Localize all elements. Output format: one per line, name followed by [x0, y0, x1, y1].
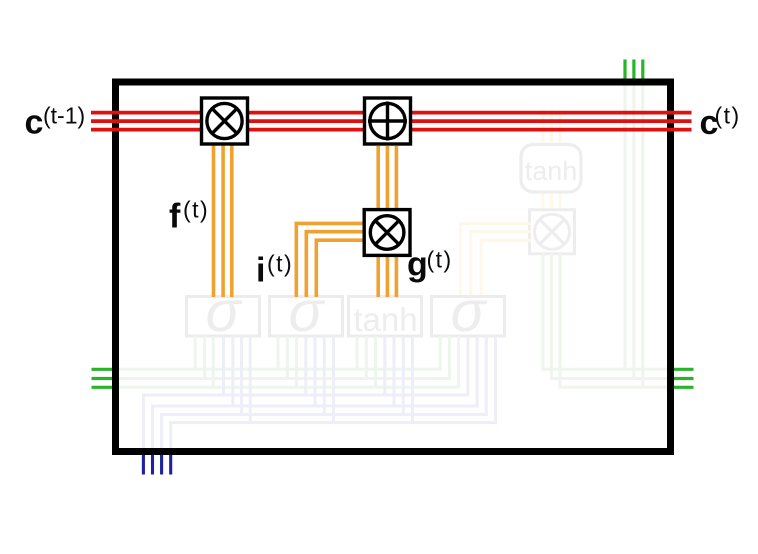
wire h-prev taps ghost (green verticals into gate boxes): [195, 336, 375, 387]
wire g-gate lower (orange verticals, tanh to multiply2): [378, 254, 396, 297]
wire h-out top branch ghost (green verticals to top border): [625, 83, 643, 387]
sigma box 1 (forget gate, ghost): [187, 279, 260, 344]
label i(t): [256, 251, 293, 290]
wire c bus (red horizontals): [91, 113, 692, 130]
svg-text:c: c: [25, 104, 44, 142]
svg-text:i: i: [256, 252, 265, 290]
multiply box U1 (forget application): [202, 98, 248, 144]
svg-text:σ: σ: [451, 279, 488, 344]
label c(t): [700, 102, 741, 142]
wire o-gate ghost (yellow, sigma4 to multiply): [461, 224, 532, 296]
svg-text:tanh: tanh: [353, 301, 417, 338]
cell border: [116, 82, 671, 452]
wire f-gate (orange verticals, multiply1 to sigma1): [214, 143, 232, 297]
svg-text:(t): (t): [715, 102, 741, 128]
wire c-to-tanh ghost (yellow verticals): [543, 110, 560, 226]
node h-prev input stubs (bright green, left): [92, 369, 120, 387]
svg-text:(t): (t): [183, 196, 209, 222]
svg-text:(t): (t): [267, 251, 293, 277]
label g(t): [407, 246, 453, 284]
svg-text:tanh: tanh: [525, 156, 578, 186]
sigma box 2 (input gate, ghost): [270, 279, 343, 344]
node h-out stubs (bright green, right): [668, 369, 694, 387]
wire h-out ghost (green, multiply down to right border): [543, 253, 670, 387]
svg-text:g: g: [407, 246, 428, 284]
add box U2 (cell state update): [365, 98, 411, 144]
node h-out stubs (bright green, top): [625, 60, 643, 85]
svg-text:(t-1): (t-1): [43, 102, 85, 128]
label f(t): [169, 196, 209, 235]
ghost tanh box (right, rounded): [521, 145, 581, 193]
node x-input stubs (navy blue, bottom): [143, 452, 170, 475]
multiply box U3 (input by candidate): [364, 210, 410, 256]
wire g-gate upper (orange verticals, multiply2 to add): [378, 146, 396, 211]
wire x-input bus ghost (lavender, bottom entry to sigma4): [143, 336, 495, 453]
ghost multiply box (right): [530, 210, 575, 254]
sigma box 3 (output gate, ghost): [432, 279, 505, 344]
svg-text:(t): (t): [427, 247, 453, 273]
svg-text:f: f: [169, 198, 181, 236]
wire h-prev bus ghost (green horizontals from left border): [117, 336, 459, 387]
wire i-gate (orange, sigma2 up and right into multiply2): [296, 223, 363, 297]
label c(t-1): [25, 102, 86, 141]
wire x-input taps ghost (lavender verticals into gate boxes): [224, 336, 413, 423]
tanh box (g gate, ghost): [349, 297, 422, 339]
